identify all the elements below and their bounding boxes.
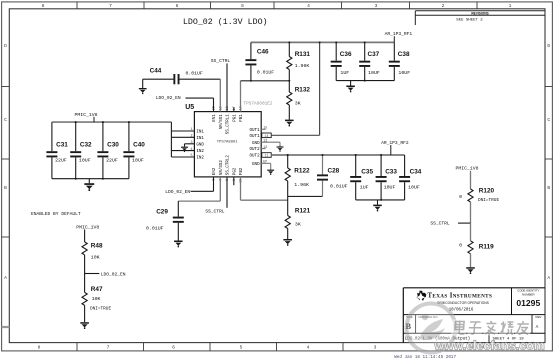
- svg-text:GND: GND: [252, 142, 260, 146]
- svg-text:8: 8: [42, 3, 45, 9]
- svg-text:5: 5: [241, 3, 244, 9]
- svg-text:D: D: [547, 43, 550, 49]
- svg-text:PMIC_1V8: PMIC_1V8: [76, 224, 99, 230]
- ground (C35-C34): [377, 200, 379, 205]
- resistor R122: [285, 155, 310, 196]
- svg-text:3: 3: [191, 141, 193, 145]
- capacitor C29: [146, 201, 184, 240]
- svg-text:U5: U5: [185, 104, 194, 111]
- svg-text:R47: R47: [91, 286, 103, 293]
- svg-text:0.01UF: 0.01UF: [330, 184, 348, 190]
- capacitor C31: [46, 122, 68, 179]
- ground (R121): [283, 239, 292, 241]
- wire PG2 pin 9 stub: [233, 177, 235, 185]
- wire LDO_02_EN to pin 20 EN1: [186, 97, 214, 99]
- svg-text:TEXAS INSTRUMENTS: TEXAS INSTRUMENTS: [428, 293, 493, 300]
- svg-text:LDO_02_EN: LDO_02_EN: [156, 95, 181, 101]
- svg-text:SEMICONDUCTOR OPERATIONS: SEMICONDUCTOR OPERATIONS: [437, 301, 490, 305]
- capacitor C36: [331, 42, 352, 80]
- wire SS_CTRL to pin 8: [226, 177, 228, 208]
- svg-text:7: 7: [107, 345, 110, 351]
- svg-text:GND: GND: [196, 143, 204, 147]
- ground (C36-C38): [350, 81, 352, 86]
- resistor R132: [287, 81, 311, 120]
- wire pin 7 NR/SS2 to C29: [219, 177, 221, 201]
- svg-text:GND: GND: [252, 163, 260, 167]
- svg-text:NR/SS1: NR/SS1: [219, 114, 224, 130]
- svg-text:0: 0: [459, 194, 462, 200]
- watermark elecfans logo ring: [407, 304, 456, 353]
- svg-text:OUT1: OUT1: [250, 129, 261, 133]
- svg-text:SS_CTRL1: SS_CTRL1: [227, 114, 231, 135]
- wire (IN pin): [171, 156, 194, 158]
- wire (IN pin): [171, 130, 194, 132]
- svg-text:6: 6: [176, 3, 179, 9]
- svg-text:IN2: IN2: [196, 150, 204, 154]
- net AR_1P3_RF2 rail (OUT2): [271, 154, 404, 156]
- svg-text:A: A: [4, 275, 7, 281]
- svg-text:www.elecfans.com: www.elecfans.com: [434, 339, 545, 353]
- svg-text:REV: REV: [536, 315, 542, 319]
- svg-text:1.96K: 1.96K: [295, 63, 310, 69]
- svg-text:A: A: [536, 324, 539, 330]
- wire SS_CTRL to pin 18: [226, 63, 228, 111]
- svg-text:0: 0: [459, 243, 462, 249]
- svg-text:C: C: [547, 117, 550, 123]
- svg-text:OUT1: OUT1: [250, 135, 261, 139]
- wire LDO_02_EN to pin 6 EN2: [191, 190, 214, 192]
- svg-text:PG2: PG2: [233, 167, 237, 175]
- wire (cap bank bottom gnd bus): [52, 178, 129, 180]
- svg-text:10UF: 10UF: [132, 157, 144, 163]
- svg-text:LDO_02_EN: LDO_02_EN: [165, 189, 190, 195]
- svg-text:OUT2: OUT2: [250, 155, 261, 159]
- svg-text:OUT2: OUT2: [250, 148, 261, 152]
- svg-text:4: 4: [307, 345, 310, 351]
- svg-text:10K: 10K: [92, 296, 101, 302]
- ground (R47): [80, 322, 89, 324]
- svg-text:1UF: 1UF: [360, 185, 369, 191]
- ground (C29): [174, 241, 183, 243]
- svg-text:3: 3: [375, 3, 378, 9]
- svg-text:5: 5: [240, 345, 243, 351]
- svg-text:R121: R121: [295, 207, 311, 214]
- svg-text:01295: 01295: [516, 298, 540, 308]
- op-amp U1? no: regulator IC U5 TPS7A8801 box: [194, 112, 261, 177]
- svg-text:5: 5: [191, 154, 193, 158]
- wire (C36-C38 gnd bus): [336, 80, 394, 82]
- TI logo (Texas map): [417, 291, 427, 301]
- pin 14 box (OUT1): [262, 133, 271, 138]
- net PMIC_1V8 (input rail): [52, 121, 171, 123]
- svg-text:10UF: 10UF: [368, 70, 380, 76]
- svg-text:EN1: EN1: [213, 114, 217, 122]
- svg-text:0.01UF: 0.01UF: [146, 226, 164, 232]
- ground (pin 13): [277, 146, 284, 147]
- svg-text:NUMBER: NUMBER: [522, 292, 535, 296]
- net AR_1P3_RF1 rail (OUT1): [251, 41, 394, 43]
- pin 3 GND wire: [185, 143, 195, 145]
- capacitor C37: [359, 42, 380, 80]
- svg-text:12: 12: [263, 146, 267, 150]
- svg-text:SS_CTRL: SS_CTRL: [205, 208, 225, 214]
- ground (cap bank): [88, 179, 90, 184]
- wire (rail drop to input pins): [170, 122, 172, 157]
- capacitor C44 (NR/SS1): [150, 67, 203, 84]
- svg-text:C28: C28: [328, 168, 340, 175]
- svg-text:C38: C38: [398, 51, 410, 58]
- revisions box: [415, 10, 545, 12]
- resistor R47: [82, 274, 111, 323]
- svg-text:7: 7: [109, 3, 112, 9]
- wire OUT1 pin14 to rail: [271, 134, 319, 136]
- svg-text:C: C: [4, 117, 7, 123]
- svg-text:R131: R131: [295, 51, 311, 58]
- IC left pin labels IN1 IN1 GND IN2 IN2: [191, 128, 205, 160]
- svg-text:Wed Jan 18 11:14:45 2017: Wed Jan 18 11:14:45 2017: [394, 355, 456, 360]
- svg-text:TPS7A8801E2: TPS7A8801E2: [244, 101, 273, 106]
- svg-text:A: A: [547, 275, 550, 281]
- svg-text:B: B: [547, 185, 550, 191]
- svg-text:C44: C44: [150, 67, 162, 74]
- svg-text:11: 11: [265, 154, 269, 158]
- svg-text:R122: R122: [294, 168, 310, 175]
- svg-text:DNI=TRUE: DNI=TRUE: [478, 198, 499, 203]
- svg-text:3K: 3K: [295, 222, 301, 228]
- capacitor C28 (feed-forward): [317, 155, 348, 196]
- ground (R132): [285, 120, 294, 122]
- capacitor C33: [376, 155, 398, 200]
- svg-text:FB2: FB2: [240, 167, 244, 175]
- svg-text:AR_1P3_RF2: AR_1P3_RF2: [381, 140, 409, 146]
- watermark chinese characters (电子发烧友): [451, 320, 531, 336]
- resistor R48: [82, 229, 103, 273]
- wire C44 left to ground: [143, 78, 174, 80]
- resistor R120: [459, 171, 499, 223]
- wire PG1 pin 17 stub: [233, 107, 235, 111]
- svg-text:2: 2: [191, 135, 193, 139]
- svg-text:DNI=TRUE: DNI=TRUE: [90, 306, 111, 311]
- svg-text:FB1: FB1: [240, 114, 244, 122]
- IC right pin labels OUT1 OUT1 GND OUT2 OUT2 GND: [250, 127, 268, 167]
- ground (pin 3): [181, 147, 188, 148]
- svg-text:LDO_02 (1.3V LDO): LDO_02 (1.3V LDO): [183, 17, 268, 27]
- svg-text:C34: C34: [410, 168, 422, 175]
- svg-text:13: 13: [263, 140, 267, 144]
- svg-text:IN1: IN1: [196, 131, 204, 135]
- svg-text:14: 14: [265, 134, 269, 138]
- svg-text:10UF: 10UF: [408, 185, 420, 191]
- wire (IN pin): [171, 136, 194, 138]
- ground (C44): [139, 88, 147, 89]
- svg-text:R120: R120: [479, 187, 495, 194]
- capacitor C46 (feed-forward): [245, 42, 274, 80]
- IC bottom pin labels EN2 NR/SS2 SS_CTRL2 PG2 FB2 (pins 6 7 8 9 10): [213, 155, 244, 183]
- wire FB1 node: [240, 81, 242, 112]
- svg-text:10UF: 10UF: [398, 70, 410, 76]
- svg-text:C30: C30: [107, 142, 119, 149]
- svg-text:C46: C46: [257, 48, 269, 55]
- title block frame: [403, 288, 545, 343]
- capacitor C34: [399, 155, 422, 200]
- svg-text:1.96K: 1.96K: [294, 182, 309, 188]
- svg-text:10/06/2016: 10/06/2016: [449, 308, 474, 313]
- capacitor C32: [70, 122, 92, 179]
- capacitor C35: [350, 155, 373, 200]
- svg-text:SS_CTRL: SS_CTRL: [211, 58, 231, 64]
- wire (IN pin): [171, 150, 194, 152]
- svg-text:D: D: [4, 43, 7, 49]
- svg-text:NR/SS2: NR/SS2: [219, 160, 224, 176]
- resistor R131: [287, 42, 311, 80]
- svg-text:2: 2: [442, 3, 445, 9]
- svg-text:R119: R119: [479, 244, 494, 251]
- svg-text:TPS7A8801: TPS7A8801: [217, 141, 239, 145]
- svg-text:10K: 10K: [91, 254, 100, 260]
- svg-text:ENABLED BY DEFAULT: ENABLED BY DEFAULT: [31, 211, 81, 217]
- svg-text:0.01UF: 0.01UF: [257, 70, 274, 76]
- svg-text:C29: C29: [156, 209, 168, 216]
- wire (C35-C34 gnd bus): [356, 199, 405, 201]
- svg-text:R132: R132: [295, 86, 311, 93]
- resistor R119: [459, 223, 494, 267]
- wire pin 15 stub: [261, 128, 265, 130]
- node SS_CTRL: [458, 222, 471, 224]
- svg-text:0.01UF: 0.01UF: [186, 71, 203, 77]
- svg-text:SS_CTRL: SS_CTRL: [430, 221, 450, 227]
- svg-text:C36: C36: [340, 51, 352, 58]
- svg-text:IN1: IN1: [196, 137, 204, 141]
- svg-text:3K: 3K: [295, 101, 301, 107]
- capacitor C38: [389, 42, 410, 80]
- svg-text:PG1: PG1: [233, 114, 237, 122]
- pin 11 box (OUT2): [262, 153, 271, 158]
- wire EP pad GND: [261, 162, 271, 164]
- svg-text:10UF: 10UF: [384, 185, 396, 191]
- svg-text:R48: R48: [91, 242, 103, 249]
- svg-text:8: 8: [38, 345, 41, 351]
- ground (R119): [466, 267, 475, 269]
- wire C44 to pin 19 NR/SS1: [180, 78, 221, 80]
- wire FB2 node: [288, 195, 323, 197]
- svg-text:EN2: EN2: [213, 167, 217, 175]
- svg-text:SEE SHEET 2: SEE SHEET 2: [456, 19, 483, 23]
- IC top pin labels EN1 NR/SS1 SS_CTRL1 PG1 FB1 (pins 20 19 18 17 16): [213, 106, 244, 134]
- svg-text:PMIC_1V8: PMIC_1V8: [456, 166, 479, 172]
- svg-text:LDO_02_EN: LDO_02_EN: [101, 271, 126, 277]
- svg-text:4: 4: [191, 148, 193, 152]
- capacitor C40: [123, 122, 145, 179]
- svg-text:1: 1: [191, 128, 193, 132]
- svg-text:1: 1: [509, 3, 512, 9]
- node LDO_02_EN: [85, 273, 100, 275]
- svg-text:SS_CTRL2: SS_CTRL2: [227, 155, 231, 176]
- svg-text:22UF: 22UF: [106, 157, 118, 163]
- svg-text:C37: C37: [368, 51, 380, 58]
- ground (EP): [267, 170, 274, 171]
- svg-text:4: 4: [307, 3, 310, 9]
- svg-text:AR_1P3_RF1: AR_1P3_RF1: [385, 31, 413, 37]
- svg-text:EP: EP: [263, 161, 267, 165]
- svg-text:6: 6: [172, 345, 175, 351]
- svg-text:1UF: 1UF: [340, 70, 349, 76]
- capacitor C30: [97, 122, 119, 179]
- svg-text:C40: C40: [133, 142, 145, 149]
- svg-text:REVISIONS: REVISIONS: [471, 11, 488, 15]
- wire pin 13 GND: [261, 141, 280, 143]
- svg-text:C32: C32: [80, 142, 92, 149]
- svg-text:C35: C35: [361, 168, 373, 175]
- svg-text:3: 3: [374, 345, 377, 351]
- svg-text:C33: C33: [385, 168, 397, 175]
- svg-text:15: 15: [263, 127, 267, 131]
- resistor R121: [285, 196, 311, 239]
- svg-text:IN2: IN2: [196, 157, 204, 161]
- svg-text:C31: C31: [56, 142, 68, 149]
- svg-text:10UF: 10UF: [79, 157, 91, 163]
- svg-text:B: B: [4, 185, 7, 191]
- wire pin 12 stub: [261, 148, 265, 150]
- svg-text:22UF: 22UF: [55, 157, 67, 163]
